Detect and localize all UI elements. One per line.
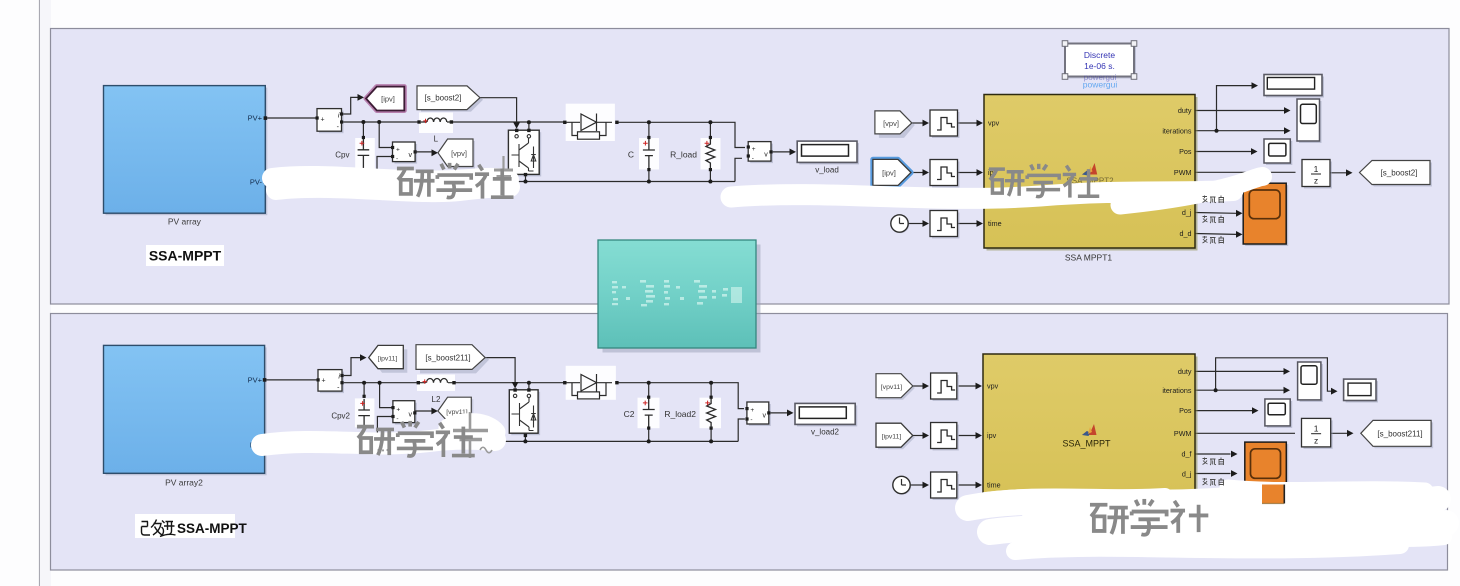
svg-text:+: + [321,117,325,124]
svg-text:v_load: v_load [815,166,839,175]
svg-text:[vpv]: [vpv] [451,149,467,158]
svg-text:v: v [763,413,767,420]
svg-text:z: z [1314,436,1318,446]
svg-text:C: C [628,149,634,159]
svg-text:-: - [396,156,398,163]
svg-text:v: v [409,412,413,419]
svg-text:[ipv11]: [ipv11] [378,355,398,362]
svg-text:[s_boost211]: [s_boost211] [1377,430,1422,439]
svg-text:Discrete: Discrete [1084,50,1115,60]
svg-text:R_load2: R_load2 [664,409,696,419]
svg-text:PV array: PV array [168,217,202,227]
svg-text:[ipv]: [ipv] [381,95,395,104]
svg-text:C2: C2 [624,409,635,419]
svg-text:-: - [750,417,752,424]
svg-text:d_f: d_f [1182,450,1192,459]
svg-text:iterations: iterations [1162,386,1192,395]
svg-text:Cpv2: Cpv2 [331,412,350,421]
svg-text:iterations: iterations [1162,127,1192,136]
svg-text:PV+: PV+ [248,376,263,385]
svg-text:-: - [396,416,398,423]
svg-text:vpv: vpv [987,382,999,391]
svg-text:+: + [752,146,756,153]
svg-text:PV+: PV+ [248,114,263,123]
svg-text:[s_boost2]: [s_boost2] [1381,169,1418,178]
svg-text:SSA-MPPT: SSA-MPPT [177,521,248,536]
svg-text:SSA_MPPT: SSA_MPPT [1062,439,1111,449]
svg-text:v_load2: v_load2 [811,428,840,437]
svg-text:duty: duty [1178,106,1192,115]
svg-text:1: 1 [1314,164,1319,174]
svg-text:duty: duty [1178,367,1192,376]
svg-text:1e-06 s.: 1e-06 s. [1084,61,1115,71]
svg-text:[ipv11]: [ipv11] [882,433,902,440]
svg-text:v: v [409,152,413,159]
svg-text:+: + [396,407,400,414]
svg-text:[ipv]: [ipv] [882,169,896,178]
svg-text:PWM: PWM [1174,429,1192,438]
svg-text:[vpv]: [vpv] [883,119,899,128]
svg-text:[s_boost2]: [s_boost2] [425,94,462,103]
svg-text:d_d: d_d [1180,229,1192,238]
svg-text:PV-: PV- [250,178,263,187]
svg-text:ipv: ipv [987,431,997,440]
svg-text:+: + [322,378,326,385]
svg-text:L2: L2 [432,395,441,404]
svg-text:powergui: powergui [1083,80,1118,90]
svg-text:d_j: d_j [1182,469,1192,478]
svg-text:SSA MPPT1: SSA MPPT1 [1065,253,1113,263]
svg-text:SSA-MPPT: SSA-MPPT [149,248,222,264]
svg-text:+: + [396,147,400,154]
svg-text:Cpv: Cpv [335,150,349,159]
svg-text:time: time [987,481,1001,490]
svg-text:z: z [1314,176,1318,186]
svg-text:L: L [434,135,439,144]
svg-text:v: v [764,152,768,159]
svg-text:PV array2: PV array2 [165,478,203,488]
svg-text:Pos: Pos [1179,406,1192,415]
svg-text:vpv: vpv [988,119,1000,128]
svg-text:[s_boost211]: [s_boost211] [425,354,470,363]
svg-text:1: 1 [1314,424,1319,434]
svg-text:time: time [988,219,1002,228]
svg-text:R_load: R_load [670,149,697,159]
svg-text:-: - [752,155,754,162]
svg-text:[vpv11]: [vpv11] [881,384,903,391]
svg-text:PWM: PWM [1174,168,1192,177]
svg-text:+: + [750,407,754,414]
svg-text:d_j: d_j [1182,208,1192,217]
svg-text:Pos: Pos [1179,147,1192,156]
